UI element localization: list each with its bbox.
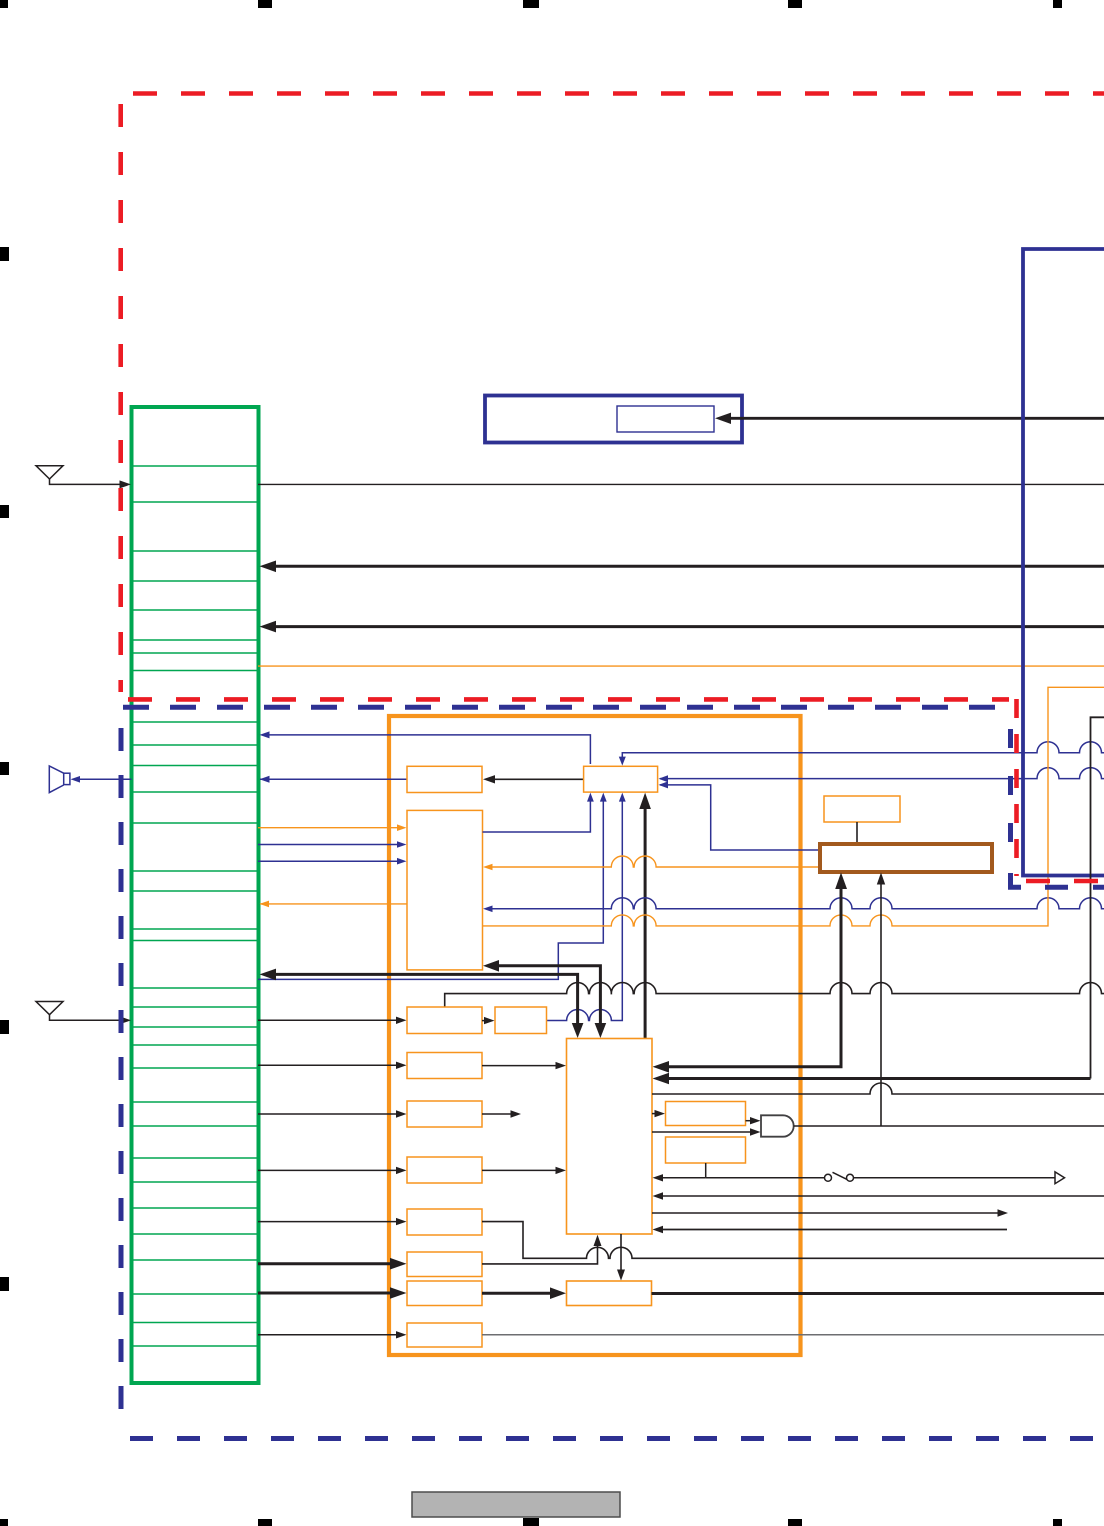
wire ANT1 line across bbox=[258, 483, 1104, 485]
speaker SP bbox=[49, 766, 131, 793]
wire box H to DBB bbox=[482, 1169, 558, 1171]
wire DBB to box K arrow bbox=[652, 1113, 657, 1115]
wire switch to open arrow bbox=[854, 1177, 1056, 1179]
wire box G short arrow bbox=[482, 1113, 512, 1115]
wire navy connector to box B top bbox=[266, 735, 590, 764]
block box O bbox=[407, 1323, 482, 1347]
switch SW bbox=[825, 1172, 854, 1181]
border navy dashed right corner bbox=[1011, 873, 1022, 887]
block U10 inner box bbox=[617, 406, 714, 432]
wire navy right to box C arrow with hops bbox=[492, 898, 1104, 909]
arrow into speaker bbox=[71, 776, 81, 783]
wire DBB to right y1094 with hop bbox=[652, 1083, 1104, 1094]
border navy dashed bottom bbox=[130, 1436, 1104, 1441]
wire black box B to box A arrow bbox=[494, 778, 584, 780]
block box K bbox=[666, 1102, 746, 1126]
block box M bbox=[567, 1281, 652, 1306]
wire orange connector to box C arrow bbox=[258, 827, 399, 829]
wire thick black brown box / DBB y1067 bbox=[668, 886, 841, 1067]
antenna ANT1 bbox=[36, 466, 121, 485]
wire navy connector to box B bottom bbox=[258, 800, 603, 979]
block brown box bbox=[820, 844, 992, 872]
wire navy connector to box C arrow 2 bbox=[258, 860, 399, 862]
wire thick black y1078 into DBB bbox=[668, 1077, 1091, 1080]
wire thick box M to right bbox=[652, 1292, 1104, 1295]
block big orange box bbox=[389, 716, 801, 1355]
registration marks top edge bbox=[0, 0, 1062, 8]
wire orange box C loop to top right bbox=[483, 687, 1104, 926]
wire box D to box E bbox=[482, 1020, 486, 1022]
block box B bbox=[584, 766, 658, 792]
wire connector to box F bbox=[258, 1064, 399, 1066]
wire thick connector to DBB top bbox=[274, 974, 578, 1024]
border navy dashed bottom right bbox=[1045, 885, 1104, 890]
block box D bbox=[407, 1007, 482, 1034]
wire orange box C to connector arrow bbox=[260, 903, 407, 905]
wire thick connector to box M2 bbox=[258, 1292, 394, 1295]
wire thick connector to box J bbox=[258, 1262, 394, 1265]
wire DBB to right arrow y1213 bbox=[652, 1212, 999, 1214]
wire right to DBB y1229 bbox=[661, 1229, 1007, 1231]
wire box I long line with hops to right bbox=[482, 1222, 1104, 1259]
registration marks left edge bbox=[0, 247, 9, 1291]
block box G bbox=[407, 1101, 482, 1127]
wire thin black brown box to gate output bbox=[880, 884, 882, 1126]
wire arrow into connector from ANT2 bbox=[120, 1016, 132, 1024]
border red dashed left bbox=[118, 104, 123, 692]
open triangle arrow end bbox=[1055, 1172, 1065, 1184]
block top-right navy box bbox=[1023, 249, 1104, 876]
block box H bbox=[407, 1157, 482, 1183]
wire thick into connector y627 bbox=[274, 625, 1104, 628]
border navy dashed right vertical bbox=[1008, 729, 1013, 870]
wire DBB bottom to box M bbox=[620, 1234, 622, 1271]
wire box L stub down and to DBB arrow bbox=[661, 1163, 706, 1178]
block box I bbox=[407, 1209, 482, 1235]
wire connector to box G bbox=[258, 1113, 399, 1115]
gate U-AND bbox=[761, 1115, 794, 1136]
border navy dashed top bbox=[123, 705, 1003, 710]
wire box L junction to switch bbox=[706, 1177, 825, 1179]
wire navy box B right to brown box bbox=[660, 785, 820, 850]
block box A bbox=[407, 766, 482, 792]
registration marks bottom edge bbox=[0, 1518, 1062, 1526]
wire box J to DBB bottom bbox=[482, 1245, 598, 1264]
block box C bbox=[407, 810, 483, 970]
block box F bbox=[407, 1053, 482, 1079]
wire gate output to right bbox=[794, 1125, 1104, 1127]
wire connector to box D bbox=[258, 1019, 399, 1021]
border red dashed bottom right bbox=[1026, 879, 1104, 884]
wire thick arrow into inner box from right bbox=[730, 417, 1104, 420]
wire navy connector to box C arrow 1 bbox=[258, 844, 399, 846]
border navy dashed left vertical bbox=[119, 728, 124, 1420]
wire thick box M2 to box M bbox=[482, 1292, 554, 1295]
wire navy right to box B top arrow bbox=[622, 742, 1104, 757]
block box J bbox=[407, 1252, 482, 1277]
wire arrow into connector from ANT1 bbox=[120, 480, 132, 488]
block U10 outer blue box bbox=[485, 396, 742, 443]
wire navy box E to box B bottom bbox=[547, 800, 622, 1021]
wire black long y994 with hops bbox=[445, 983, 1104, 1007]
wire stub small box to brown box bbox=[856, 822, 858, 844]
block box M2 bbox=[407, 1281, 482, 1306]
wire orange y666 bbox=[258, 665, 1104, 667]
wire right to DBB y1196 bbox=[661, 1195, 1104, 1197]
block box L bbox=[666, 1137, 746, 1163]
wire thick into connector y566 bbox=[274, 565, 1104, 568]
wire gray box O to right bbox=[482, 1334, 1104, 1336]
gray label box bottom bbox=[412, 1492, 620, 1517]
wire box K to gate arrow bbox=[746, 1120, 753, 1122]
wire black right loop vertical bbox=[1091, 717, 1104, 1078]
wire orange right to box C arrow with hops bbox=[492, 856, 820, 867]
wire navy box A to connector bbox=[260, 778, 407, 780]
wire navy right to box B right arrow bbox=[660, 768, 1104, 779]
border red dashed top bbox=[133, 91, 1104, 96]
wire thick black DBB to box B bottom bbox=[644, 806, 647, 1039]
antenna ANT2 bbox=[36, 1002, 121, 1021]
block small orange box above brown bbox=[824, 796, 900, 822]
wire connector to box I bbox=[258, 1221, 399, 1223]
wire connector to box H bbox=[258, 1169, 399, 1171]
wire box F to DBB bbox=[482, 1065, 558, 1067]
block box E bbox=[495, 1007, 547, 1034]
wire navy box C to box B bottom bbox=[483, 800, 591, 832]
wire DBB to gate lower arrow bbox=[652, 1131, 752, 1133]
wire connector to box O bbox=[258, 1334, 399, 1336]
border red dashed middle bbox=[128, 697, 1009, 702]
block DBB big center box bbox=[567, 1039, 653, 1235]
border red dashed right vertical bbox=[1014, 699, 1019, 876]
wire thick box C to DBB top bbox=[497, 966, 600, 1024]
connector CN green block bbox=[132, 407, 259, 1383]
